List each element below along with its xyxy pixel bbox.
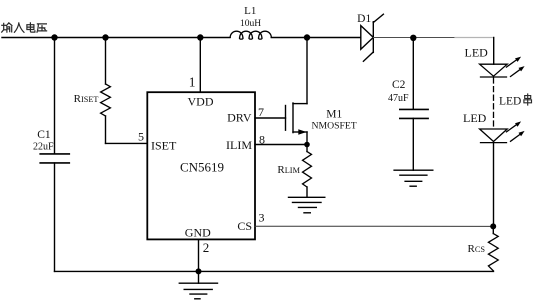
svg-text:NMOSFET: NMOSFET [312, 120, 357, 131]
svg-text:2: 2 [203, 240, 210, 255]
wire bottom rail [55, 270, 494, 272]
node: RISET junction [102, 34, 108, 40]
wire ISET pin 5 [106, 142, 148, 144]
glyph 电 [27, 23, 35, 32]
resistor RISET branch [105, 38, 107, 85]
svg-text:C2: C2 [392, 79, 406, 91]
node: drain junction [304, 34, 310, 40]
capacitor C1 branch wire [54, 38, 56, 154]
ground below GND pin [198, 271, 200, 283]
glyph 输 [2, 23, 12, 32]
ground below RLIM [306, 187, 308, 197]
svg-text:22uF: 22uF [33, 141, 54, 152]
node: ILIM/RLIM/source junction [304, 142, 310, 148]
svg-text:ILIM: ILIM [226, 138, 252, 152]
wire GND pin 2 riser [198, 239, 200, 271]
svg-text:10uH: 10uH [240, 19, 261, 29]
svg-text:DRV: DRV [227, 111, 252, 125]
diode D1 [361, 26, 374, 50]
svg-text:LED: LED [463, 111, 487, 125]
capacitor C2 branch [412, 38, 414, 109]
svg-text:LED: LED [499, 96, 521, 108]
svg-text:RISET: RISET [74, 93, 99, 105]
ground below C2 [394, 169, 433, 171]
wire CS pin 3 [255, 225, 493, 227]
label 输入电压 input voltage (hand-drawn glyphs) [2, 23, 47, 33]
svg-text:M1: M1 [326, 108, 342, 120]
wire DRV pin 7 [255, 117, 286, 119]
wire dashed LED string [493, 78, 495, 129]
svg-text:5: 5 [138, 129, 144, 143]
svg-text:RCS: RCS [468, 243, 486, 255]
svg-text:GND: GND [185, 226, 211, 240]
transistor M1 NMOSFET [285, 106, 287, 131]
svg-text:8: 8 [259, 133, 265, 147]
wire down to LED1 [493, 38, 495, 65]
node: C2 junction [410, 35, 416, 41]
node: input rail / C1 junction [51, 34, 57, 40]
svg-text:VDD: VDD [188, 95, 214, 109]
svg-text:D1: D1 [357, 13, 371, 25]
svg-text:1: 1 [189, 74, 196, 89]
svg-text:RLIM: RLIM [277, 164, 300, 176]
wire top rail from input to inductor [2, 37, 230, 39]
svg-text:ISET: ISET [151, 139, 177, 153]
glyph 入 [14, 23, 24, 32]
LED D3 bottom of string [480, 129, 508, 142]
wire diode to LED string corner [373, 37, 456, 39]
op-amp: IC U1 CN5619 body [147, 92, 255, 239]
svg-text:L1: L1 [244, 5, 256, 17]
LED D2 top of string [480, 64, 508, 76]
svg-text:47uF: 47uF [388, 93, 409, 104]
node: CS/RCS junction [490, 223, 496, 229]
svg-text:C1: C1 [37, 129, 51, 141]
wire LED2 to CS node [493, 143, 495, 227]
resistor RLIM [306, 145, 308, 152]
inductor L1 [230, 31, 271, 39]
glyph 压 [37, 24, 47, 32]
wire ILIM pin 8 [255, 144, 307, 146]
capacitor C2 [400, 108, 428, 110]
node: GND junction [196, 268, 202, 274]
wire VDD riser pin 1 [199, 38, 201, 93]
resistor RCS [492, 226, 494, 233]
capacitor C1 [40, 153, 69, 155]
svg-text:CN5619: CN5619 [180, 159, 224, 174]
svg-text:7: 7 [258, 105, 264, 119]
wire inductor to diode [271, 37, 361, 39]
node: VDD junction [197, 34, 203, 40]
svg-text:CS: CS [237, 219, 252, 233]
glyph 串 of LED串 [524, 94, 532, 105]
svg-text:3: 3 [259, 210, 265, 224]
svg-text:LED: LED [465, 45, 489, 59]
